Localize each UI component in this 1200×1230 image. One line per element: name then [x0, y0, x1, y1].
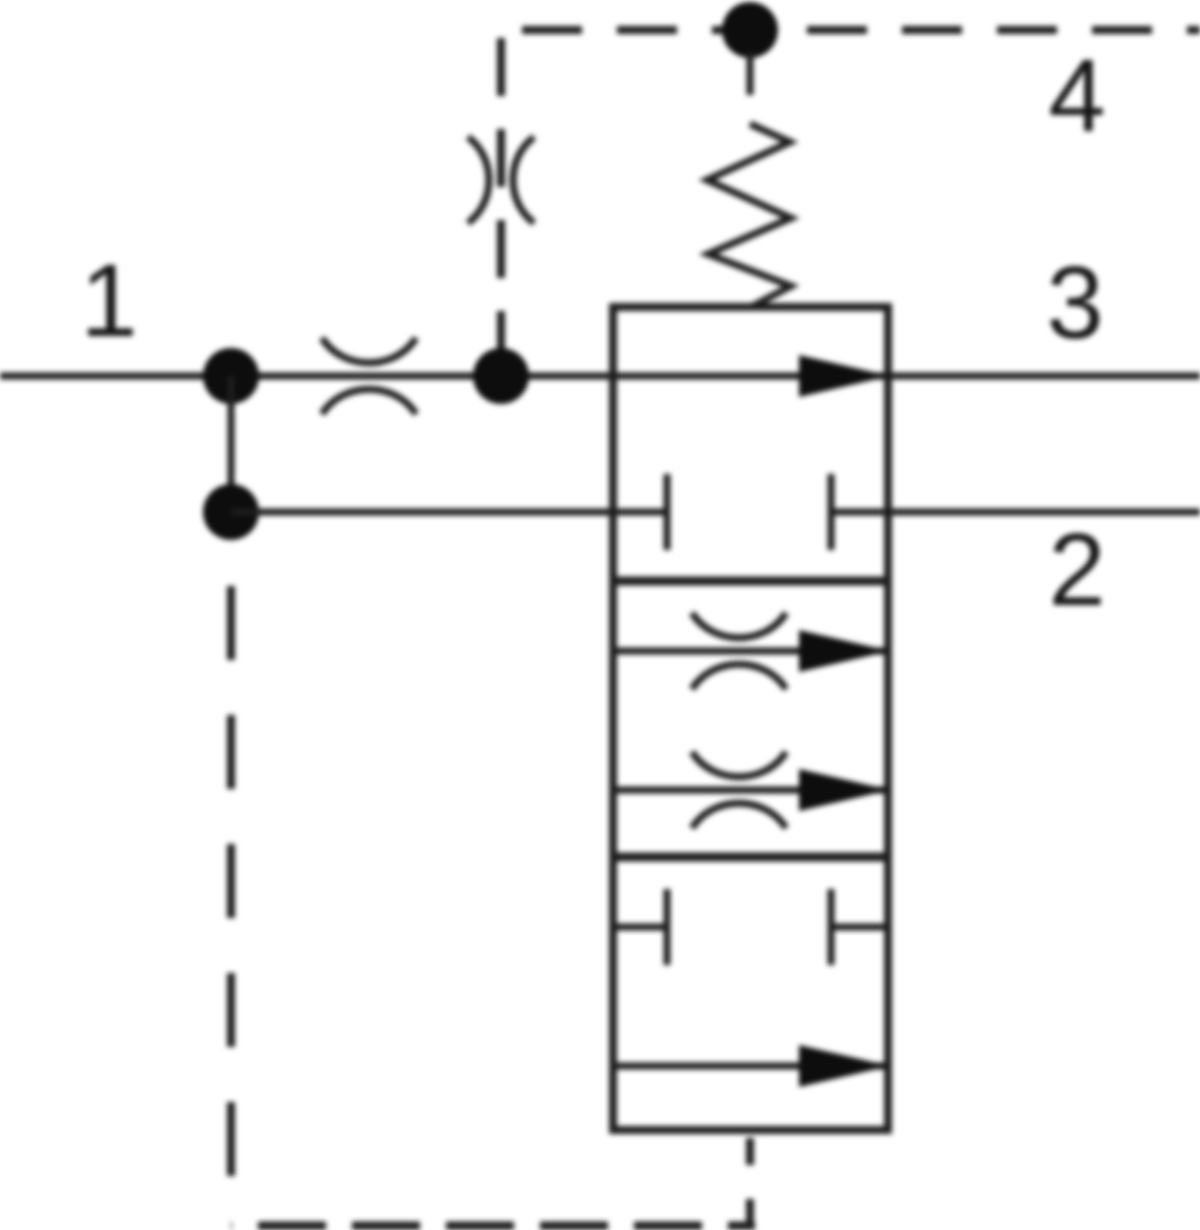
blocked port T: section 3 left bar — [664, 889, 671, 965]
orifice: pilot restrictor on vertical dashed line — [468, 137, 534, 223]
blocked port T: section 1 right bar — [828, 474, 835, 550]
wire: port 2 line left segment (node C to valve) — [231, 509, 667, 516]
wire: section 3 lower flow path — [613, 1063, 888, 1070]
node A: junction on main line — [203, 348, 259, 404]
wire: dashed drain line (vertical from node C) — [227, 540, 235, 1224]
orifice: fixed restrictor on main line — [322, 338, 416, 414]
svg-text:2: 2 — [1048, 512, 1105, 627]
orifice: section 2 upper restrictor — [692, 613, 786, 689]
wire: port 2 line right segment (valve to right edge) — [831, 509, 1200, 516]
valve body: outer rectangle — [613, 307, 888, 1130]
wire: dashed drain line (bottom horizontal) — [231, 1222, 755, 1230]
wire: section 3 blocked path left stub — [613, 924, 667, 931]
wire: stub below pilot junction — [747, 52, 754, 95]
flow arrow: section 1 main path (tip at right edge) — [799, 355, 890, 397]
flow arrow: section 3 lower path — [799, 1045, 890, 1087]
blocked port T: section 3 right bar — [828, 889, 835, 965]
blocked port T: section 1 left bar — [664, 474, 671, 550]
flow arrow: section 2 lower path — [799, 769, 890, 811]
svg-text:4: 4 — [1048, 38, 1105, 153]
wire: vertical link node A to node C — [228, 376, 235, 512]
node C: junction on port-2 branch — [203, 484, 259, 540]
wire: dashed pilot vertical from node B up to port-4 line — [497, 30, 505, 376]
wire: main line port 1 to port 3 (y=376) — [0, 373, 1200, 380]
node B: junction where pilot line taps main line — [473, 348, 529, 404]
wire: dashed pilot line port 4 (top horizontal) — [500, 26, 1200, 34]
svg-text:1: 1 — [80, 243, 137, 358]
valve body: division line between section 2 and 3 — [613, 853, 888, 862]
svg-text:3: 3 — [1046, 245, 1103, 360]
wire: dashed stub below valve bottom — [746, 1131, 754, 1226]
spring: return spring above valve — [707, 124, 791, 306]
node: pilot junction on port-4 line — [722, 2, 778, 58]
wire: section 3 blocked path right stub — [831, 924, 888, 931]
valve body: division line between section 1 and 2 — [613, 577, 888, 586]
flow arrow: section 2 upper path — [799, 630, 890, 672]
wire: section 2 upper flow path — [613, 648, 888, 655]
wire: section 2 lower flow path — [613, 787, 888, 794]
orifice: section 2 lower restrictor — [692, 752, 786, 828]
